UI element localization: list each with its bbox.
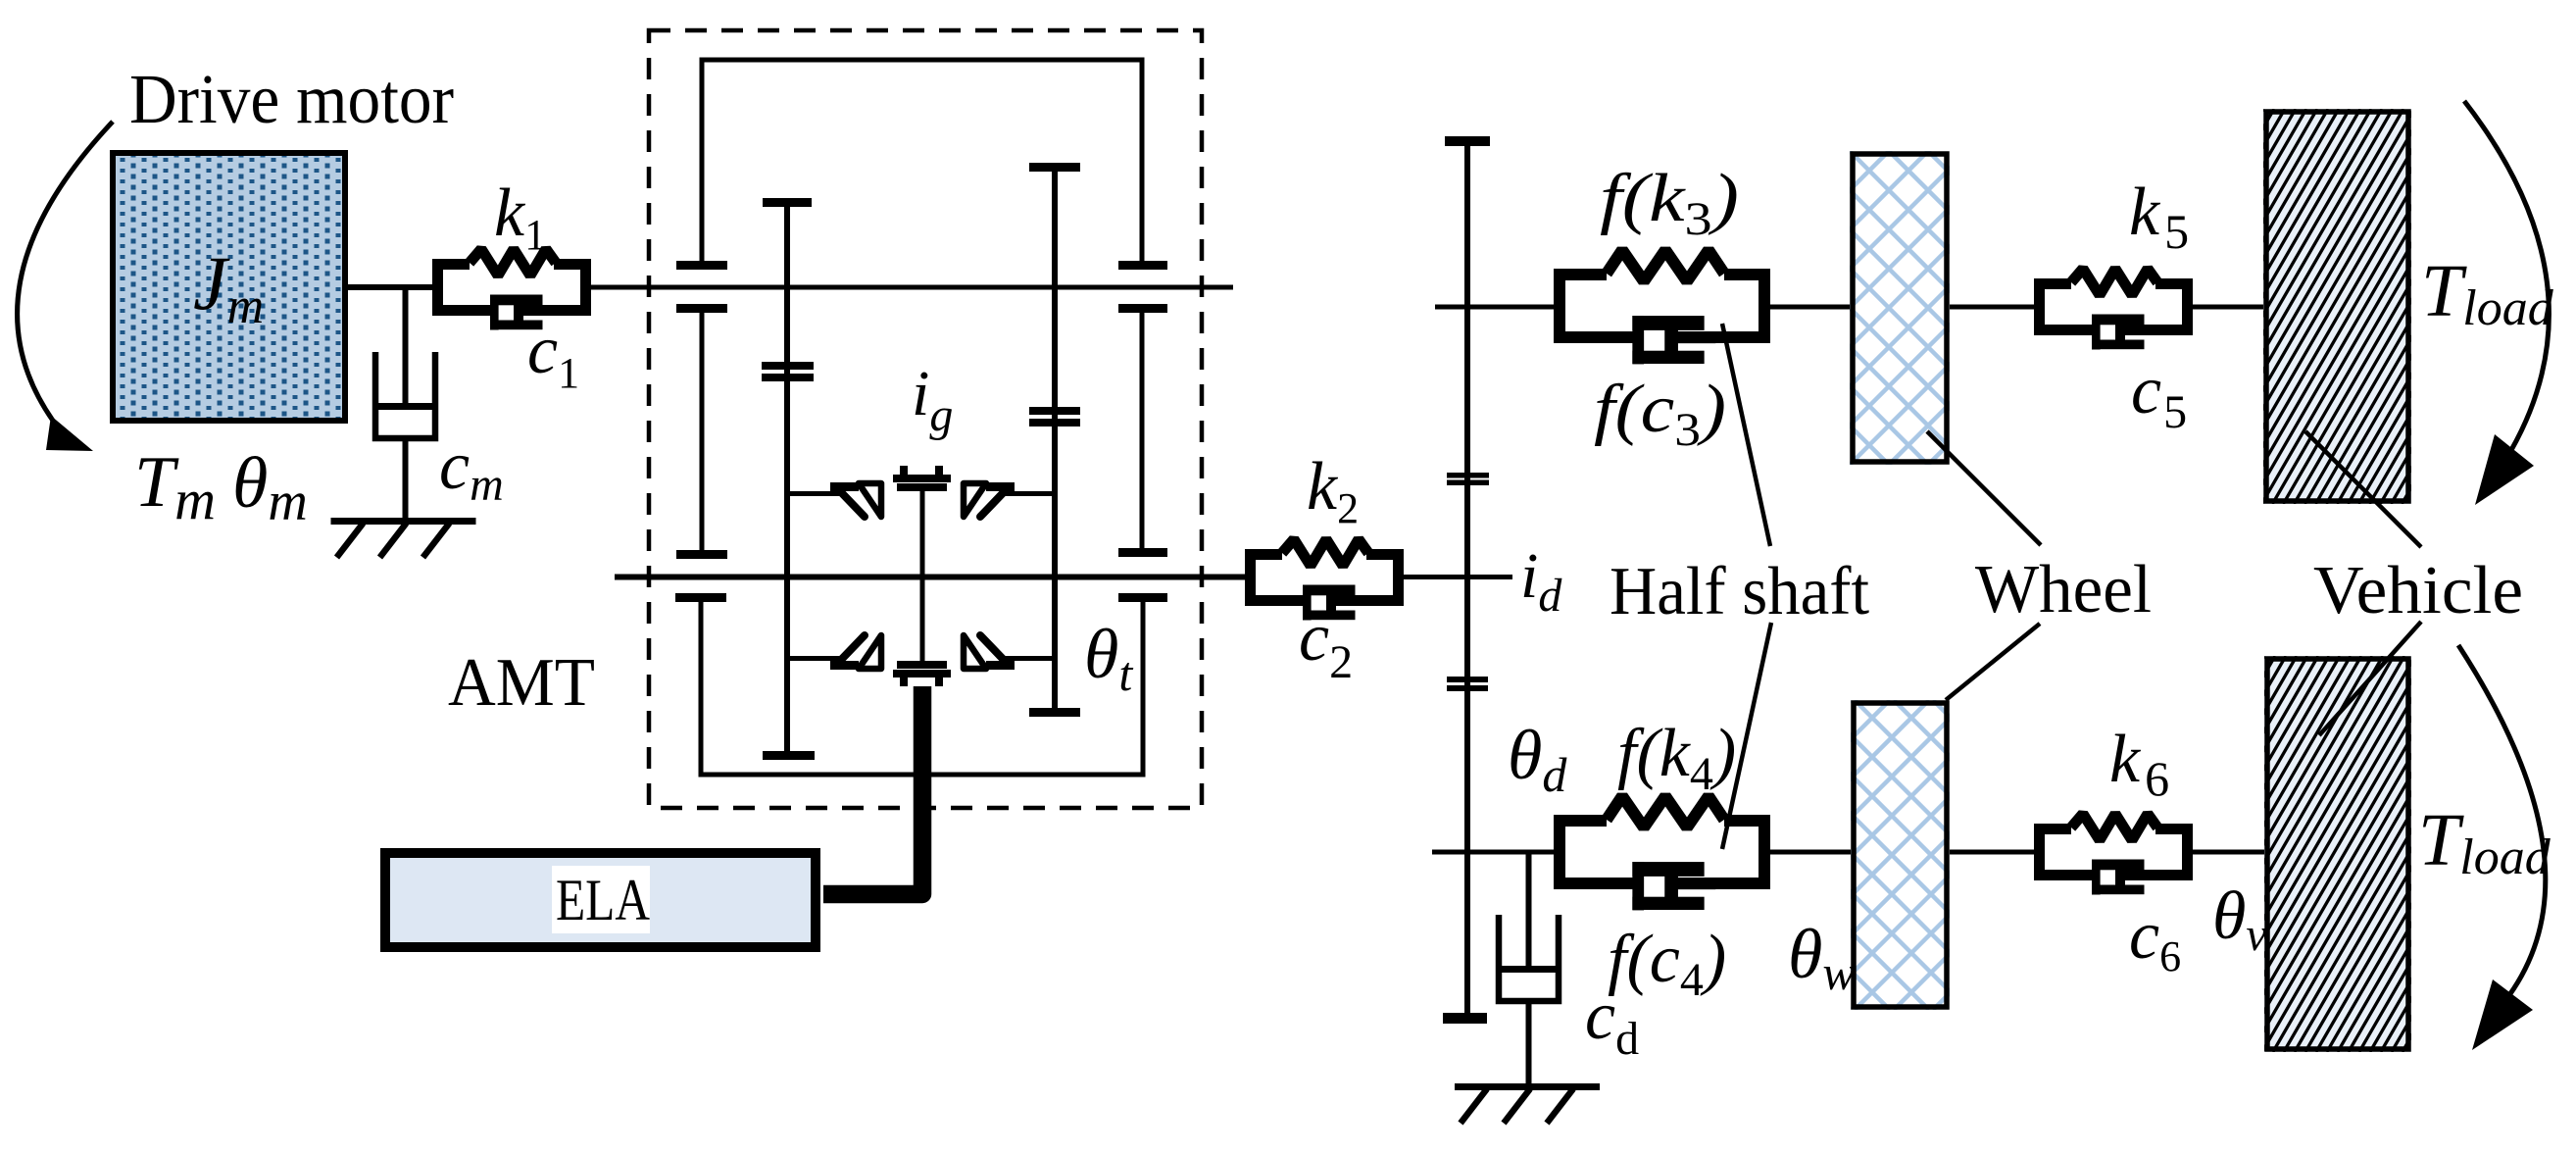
wire: wheel to k5 [1950,305,2034,310]
wire: branch to damper cd [1526,852,1532,970]
svg-text:Wheel: Wheel [1975,552,2152,627]
wire: motor output shaft [348,284,432,290]
leader: vehicle lower [2319,622,2421,735]
gear frame bottom [701,602,1143,775]
wire: input shaft into AMT [591,285,1233,290]
actuator ELA box [385,853,816,947]
leader: half shaft lower [1722,623,1771,849]
svg-text:Vehicle: Vehicle [2313,553,2523,628]
synchronizer upper-left [787,482,881,517]
gear T-bar (diff top) [1445,136,1490,146]
ground (under cd) [1455,1087,1600,1124]
gear wheel pair (col3) [1029,407,1080,415]
wire: left gear shaft [700,313,705,550]
leader: wheel upper [1927,431,2041,545]
wire: damper cd to ground [1526,1004,1532,1086]
wire: f(k4) to wheel [1770,850,1851,855]
AMT dashed enclosure [649,30,1202,808]
gear T-bar (input left upper) [676,261,727,270]
gear shaft column 2 [784,207,790,751]
torque arrow T load upper (curved) [2464,101,2549,505]
vehicle lower block [2036,656,2576,1052]
synchronizer lower-right [964,635,1058,670]
gear T-bar (left above lower shaft) [676,550,727,559]
leader: half shaft upper [1722,324,1770,546]
vehicle upper block [2035,109,2576,504]
gear frame top [702,60,1142,261]
wire: k2 to differential shaft, id node [1404,575,1512,579]
damper cm [374,352,436,438]
leader: wheel lower [1946,624,2040,700]
gear T-bar (right above lower shaft) [1118,548,1167,557]
mass Jm drive motor block [113,153,345,421]
gear T-bar (left below lower shaft) [675,593,726,602]
gear T-bar (right above input shaft) [1118,261,1167,270]
svg-text:Half shaft: Half shaft [1610,554,1870,629]
wheel upper block [1536,151,2242,465]
spring k5 / damper c5 unit [2040,269,2188,350]
gear T-bar (col2 top) [763,198,812,207]
gear T-bar (diff bottom) [1443,1013,1487,1024]
spring k2 / damper c2 unit [1251,539,1399,621]
gear wheel pair (diff upper) [1447,473,1489,478]
gear T-bar (right below input shaft) [1118,304,1167,313]
ground (under cm) [331,522,476,558]
shift linkage (thick rod to ELA) [823,686,922,894]
gear T-bar (right below lower shaft) [1118,593,1167,602]
svg-text:ELA: ELA [556,868,650,932]
gear T-bar (input left lower) [676,304,727,313]
svg-text:f(k3): f(k3) [1600,161,1739,245]
label ELA [552,866,650,933]
gear wheel pair (col2) [762,362,814,370]
synchronizer hub lower [893,661,951,686]
wire: f(k3) to wheel [1770,305,1851,310]
spring f(k4) / damper f(c4) unit [1560,796,1764,910]
torque arrow T load lower (curved) [2458,645,2546,1050]
synchronizer upper-right [964,482,1058,517]
svg-text:f(k4): f(k4) [1617,716,1736,800]
differential vertical shaft [1464,146,1470,1013]
gear shaft column 3 [1052,172,1058,708]
svg-text:f(c3): f(c3) [1594,372,1726,456]
torque arrow Tm (curved) [18,122,113,451]
wire: k5 to vehicle [2193,305,2263,310]
wire: wheel to k6 [1950,850,2034,855]
wire: branch to damper cm [403,287,409,407]
wire: right gear shaft [1140,313,1145,549]
wire: lower axle from differential [1432,850,1554,855]
synchronizer hub upper [893,466,951,491]
synchronizer lower-left [787,635,881,670]
gear T-bar (col2 bottom) [763,751,815,760]
wheel lower block [1541,700,2243,1010]
wire: upper axle from differential [1435,305,1554,310]
wire: k6 to vehicle [2193,850,2264,855]
gear T-bar (col3 top) [1029,163,1080,172]
wire: AMT lower output shaft [615,575,1245,580]
gear T-bar (col3 bottom) [1029,708,1080,717]
spring f(k3) / damper f(c3) unit [1560,250,1764,364]
spring k6 / damper c6 unit [2040,814,2188,895]
wire: synchronizer rod [920,491,925,661]
gear wheel pair (diff lower) [1447,677,1488,682]
svg-text:Drive motor: Drive motor [129,60,454,138]
svg-text:AMT: AMT [448,645,595,721]
leader: vehicle upper [2305,431,2421,547]
svg-text:f(c4): f(c4) [1608,922,1726,1006]
damper cd [1498,915,1560,1001]
wire: damper cm to ground [403,441,409,521]
spring k1 / damper c1 unit [438,249,586,330]
